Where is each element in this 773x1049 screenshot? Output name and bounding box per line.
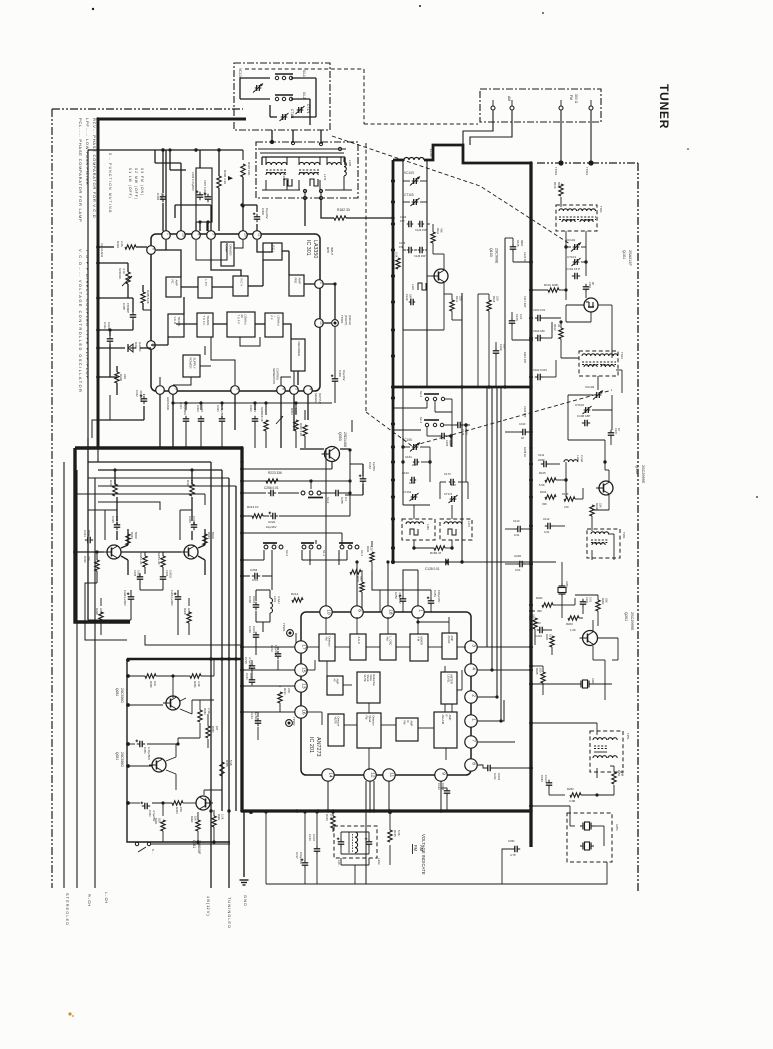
svg-text:C304: C304 xyxy=(165,570,169,577)
svg-text:470: 470 xyxy=(564,505,569,509)
svg-text:R113: R113 xyxy=(391,252,395,259)
transformer L172 coils xyxy=(444,522,462,524)
svg-text:0.47µ/50V: 0.47µ/50V xyxy=(147,747,151,760)
dashed line top vertical xyxy=(363,69,365,124)
svg-text:43K: 43K xyxy=(440,228,444,233)
svg-text:Q102: Q102 xyxy=(635,465,639,474)
svg-text:S2 MW (OFF): S2 MW (OFF) xyxy=(134,168,138,200)
resistor R181 xyxy=(360,582,364,592)
svg-text:C164: C164 xyxy=(405,455,412,459)
wire r185 xyxy=(542,666,544,672)
wire c311 xyxy=(109,330,111,336)
svg-text:33K: 33K xyxy=(605,598,609,603)
svg-text:4: 4 xyxy=(308,388,312,390)
coil loop b xyxy=(310,179,318,186)
svg-text:S2-4: S2-4 xyxy=(419,417,423,423)
transformer L181 primary xyxy=(327,163,341,165)
svg-text:5.6K: 5.6K xyxy=(229,760,233,766)
svg-text:C211: C211 xyxy=(493,773,497,780)
wire rbottom xyxy=(162,831,164,842)
svg-text:3.3K: 3.3K xyxy=(197,681,201,687)
resistor R309 xyxy=(115,372,119,383)
capacitor C302 xyxy=(252,418,259,420)
capacitor C334 xyxy=(87,537,89,544)
pin 13 IC201 left xyxy=(295,680,307,692)
svg-text:C311: C311 xyxy=(103,322,107,329)
transistor Q342 xyxy=(184,545,198,559)
svg-text:S2-2: S2-2 xyxy=(285,550,289,556)
IF band rails xyxy=(260,152,344,154)
dashed line top xyxy=(245,68,364,70)
wire r203 xyxy=(561,605,563,618)
svg-text:470µ/10V: 470µ/10V xyxy=(139,390,143,402)
capacitor C115 xyxy=(510,246,517,248)
wire t101 down xyxy=(565,231,567,242)
chain border right xyxy=(637,163,639,893)
wire thick mid-left vertical xyxy=(75,448,130,622)
svg-text:Q101: Q101 xyxy=(622,250,626,259)
svg-text:15P: 15P xyxy=(400,219,405,223)
transformer L161 primary xyxy=(266,162,287,165)
switch S2-3 xyxy=(425,397,428,400)
transistor Q353 xyxy=(325,447,340,462)
wire thick FM top entry xyxy=(393,159,404,162)
resistor R302 xyxy=(303,425,307,436)
svg-text:Q201: Q201 xyxy=(624,612,628,621)
TP201 test point xyxy=(287,630,294,637)
coil L103 xyxy=(418,283,426,290)
wire band inner xyxy=(261,157,263,165)
svg-text:1: 1 xyxy=(470,718,476,721)
svg-text:10µ/16V: 10µ/16V xyxy=(342,370,346,381)
svg-text:A.G.C: A.G.C xyxy=(357,637,361,645)
svg-text:C335: C335 xyxy=(111,516,115,523)
IF band second row xyxy=(266,173,285,175)
svg-text:C165: C165 xyxy=(445,440,449,447)
svg-text:0.022: 0.022 xyxy=(441,783,445,791)
svg-text:4.7µ/25V: 4.7µ/25V xyxy=(398,592,402,604)
capacitor C112 xyxy=(547,523,549,530)
block AM MIXER xyxy=(410,634,428,661)
capacitor C326 xyxy=(175,596,182,598)
wire nest h9 xyxy=(98,502,160,510)
IF band drops xyxy=(265,157,267,165)
svg-text:1µ/50V: 1µ/50V xyxy=(254,712,258,721)
switch row S2-2 xyxy=(264,545,268,549)
wire thick lower horizontal bus xyxy=(242,809,531,812)
svg-text:12: 12 xyxy=(369,772,375,778)
wire nest h8 xyxy=(75,493,205,495)
ic wire 4 xyxy=(234,240,243,266)
svg-text:6800: 6800 xyxy=(465,429,469,435)
svg-text:16: 16 xyxy=(300,709,306,715)
varicap VC101 xyxy=(574,244,576,250)
svg-text:C312: C312 xyxy=(135,390,139,397)
block AMFM IF xyxy=(434,712,457,748)
svg-text:AMP: AMP xyxy=(448,715,452,721)
pin 9 IC301 bottom xyxy=(231,386,240,395)
svg-text:T251: T251 xyxy=(626,733,630,740)
svg-text:8: 8 xyxy=(470,762,476,765)
trimmer CT172 xyxy=(451,496,453,502)
svg-text:MPB: MPB xyxy=(326,247,330,253)
block TUFF 19kHz xyxy=(227,312,255,337)
capacitor C163 xyxy=(411,477,413,484)
block TUFF TRANS xyxy=(197,313,213,337)
svg-text:4.7K: 4.7K xyxy=(122,268,126,274)
wire rail rch xyxy=(76,470,78,888)
pin 4 IC301 bottom xyxy=(304,386,313,395)
wire nest h3 xyxy=(92,395,110,438)
svg-text:RC: RC xyxy=(171,280,175,284)
svg-text:L20…: L20… xyxy=(337,860,341,867)
scan speck 3 xyxy=(756,496,758,498)
svg-text:AMP: AMP xyxy=(297,278,301,284)
svg-text:0.022: 0.022 xyxy=(252,626,256,634)
dashed vertical mid xyxy=(365,143,367,412)
svg-text:(19kHz): (19kHz) xyxy=(244,315,248,325)
wire r336 xyxy=(96,552,98,560)
svg-text:R109: R109 xyxy=(595,503,599,510)
wire r331 top xyxy=(114,470,116,484)
capacitor C308 xyxy=(254,216,261,218)
svg-text:R - CH: R - CH xyxy=(87,894,92,906)
svg-text:X201: X201 xyxy=(565,581,569,588)
svg-text:220P: 220P xyxy=(538,458,545,462)
svg-text:V.C.O ADJ: V.C.O ADJ xyxy=(100,243,104,258)
capacitor C214 xyxy=(255,720,262,722)
resistor R183 xyxy=(434,546,445,550)
resistor R216 xyxy=(331,816,335,828)
svg-text:4: 4 xyxy=(196,233,200,235)
wire fm feed b xyxy=(590,110,592,163)
resistor R213 xyxy=(252,514,263,518)
svg-text:R361: R361 xyxy=(217,814,221,821)
svg-text:FM: FM xyxy=(413,845,418,852)
wire vertical drop D xyxy=(235,486,237,811)
svg-text:R223 33K: R223 33K xyxy=(268,471,283,475)
ic201 wire 7 xyxy=(457,689,462,691)
capacitor C126 xyxy=(419,247,421,254)
svg-text:300 Ω: 300 Ω xyxy=(574,94,578,104)
ic wire 8 xyxy=(156,249,166,251)
trimmer CT171 xyxy=(298,107,300,113)
capacitor C221 xyxy=(249,679,256,681)
wire q103 xyxy=(427,275,431,277)
switch S3-2 xyxy=(301,491,305,495)
wire h560 xyxy=(242,559,264,561)
wire q341 xyxy=(113,528,115,545)
svg-text:C106 18P: C106 18P xyxy=(577,414,590,418)
svg-text:0.022: 0.022 xyxy=(544,775,548,782)
capacitor C218 xyxy=(253,604,260,606)
svg-text:G N D: G N D xyxy=(243,895,248,906)
capacitor C129 xyxy=(410,299,412,306)
pin 8 IC301 bottom xyxy=(277,386,286,395)
svg-text:C122: C122 xyxy=(400,215,407,219)
antenna box xyxy=(480,89,601,122)
svg-text:180: 180 xyxy=(503,344,507,349)
svg-text:0.022: 0.022 xyxy=(535,634,542,638)
svg-text:390: 390 xyxy=(537,609,542,613)
pin 1 IC201 top xyxy=(412,606,424,618)
ic201 wire 1 xyxy=(335,646,350,648)
wire sbottom xyxy=(151,843,230,845)
ic wire 12 xyxy=(297,371,299,385)
wire nest h4 xyxy=(160,448,222,456)
inductor L202 xyxy=(270,598,273,613)
wire vc104 b xyxy=(291,77,316,79)
svg-text:10: 10 xyxy=(243,233,247,237)
svg-text:15P: 15P xyxy=(399,245,404,249)
wire band top rail xyxy=(258,148,346,150)
svg-text:R251: R251 xyxy=(617,770,621,777)
ic wire 3 xyxy=(211,240,241,276)
wire r202 xyxy=(574,598,576,605)
transformer L162 box xyxy=(402,519,435,540)
svg-text:20P: 20P xyxy=(412,463,417,467)
wire c251 loop xyxy=(520,848,531,850)
resistor R304 xyxy=(125,245,136,249)
svg-text:TRANS: TRANS xyxy=(177,317,181,327)
svg-text:L171: L171 xyxy=(323,174,327,181)
wire nest long1 xyxy=(87,462,89,620)
pin 17 IC201 left xyxy=(295,641,307,653)
svg-text:C112: C112 xyxy=(543,517,550,521)
capacitor C105 xyxy=(509,320,516,322)
wire q353 xyxy=(300,448,324,450)
pin 1 IC301 xyxy=(162,231,171,240)
svg-text:S3-2: S3-2 xyxy=(326,497,330,504)
svg-text:R338: R338 xyxy=(95,608,99,615)
capacitor C255 xyxy=(335,490,337,497)
svg-text:R328: R328 xyxy=(183,608,187,615)
pin 11 IC201 bottom xyxy=(383,769,395,781)
pin 2 IC201 right xyxy=(465,691,477,703)
crystal X251a xyxy=(582,823,584,830)
wire q351 xyxy=(128,765,152,767)
ic wire 9 xyxy=(176,323,197,325)
svg-text:0.022: 0.022 xyxy=(160,193,164,201)
wire ct103 xyxy=(403,201,410,203)
capacitor C123 xyxy=(419,221,421,228)
wire c113 xyxy=(505,528,515,530)
wire thick FM left border xyxy=(392,160,395,562)
wire r215 xyxy=(389,812,391,830)
svg-text:R214: R214 xyxy=(291,592,299,596)
svg-text:R202: R202 xyxy=(601,598,605,605)
svg-text:PCL…… PHASE COMPARATOR FOR LAM: PCL…… PHASE COMPARATOR FOR LAMP xyxy=(78,118,83,222)
svg-text:100: 100 xyxy=(539,668,543,673)
ic wire 7 xyxy=(282,250,289,252)
wire c216 xyxy=(316,812,318,846)
svg-text:0.01: 0.01 xyxy=(589,597,593,603)
ic wire 10 xyxy=(283,324,291,339)
svg-text:TP201: TP201 xyxy=(282,623,286,632)
resistor R106 xyxy=(564,497,575,501)
svg-text:1.2K: 1.2K xyxy=(570,628,576,632)
svg-text:C334: C334 xyxy=(83,530,87,537)
svg-text:L172: L172 xyxy=(467,521,471,527)
svg-text:R185: R185 xyxy=(535,668,539,675)
wire vertical drop B xyxy=(221,470,223,811)
wire pin8 xyxy=(477,765,486,768)
trimmer arrow xyxy=(276,416,283,424)
svg-text:15K: 15K xyxy=(179,807,183,812)
svg-text:C361: C361 xyxy=(148,810,152,817)
svg-text:LPF…… LOW PASS FILTER: LPF…… LOW PASS FILTER xyxy=(85,118,90,185)
svg-text:22K: 22K xyxy=(287,688,291,693)
wire nest long2 xyxy=(211,461,242,463)
capacitor C311 xyxy=(107,338,114,340)
svg-text:T U F F DIRECT COUPLED TYPE: T U F F DIRECT COUPLED TYPE FLIP-FLOP xyxy=(85,249,90,380)
svg-text:C254: C254 xyxy=(250,568,258,572)
pin 4 IC301 xyxy=(192,231,201,240)
capacitor C184 xyxy=(360,478,367,480)
wire c203 xyxy=(505,563,517,565)
resistor R113 xyxy=(396,258,400,269)
svg-text:C216: C216 xyxy=(308,834,312,841)
wire q342 xyxy=(198,545,205,548)
capacitor C111 xyxy=(543,461,545,468)
svg-text:GROUND: GROUND xyxy=(166,397,170,410)
svg-text:SVR310: SVR310 xyxy=(118,268,122,279)
resistor R280 xyxy=(145,674,156,678)
svg-text:Noise: Noise xyxy=(369,675,372,682)
wire thick lower block top xyxy=(127,658,242,660)
capacitor C109 xyxy=(493,350,500,352)
resistor R182 xyxy=(334,216,346,220)
svg-text:R355: R355 xyxy=(225,760,229,767)
wire q341 base xyxy=(75,551,104,553)
svg-text:13: 13 xyxy=(181,233,185,237)
svg-text:R205: R205 xyxy=(528,614,532,621)
svg-text:S1-1: S1-1 xyxy=(302,70,306,77)
svg-text:4.7P: 4.7P xyxy=(510,853,516,857)
svg-text:22K: 22K xyxy=(123,374,127,379)
svg-text:L202: L202 xyxy=(273,596,277,603)
svg-text:R307 10K: R307 10K xyxy=(247,162,251,175)
wire r201 xyxy=(531,604,542,606)
capacitor C215 xyxy=(249,665,256,667)
wire r307 xyxy=(242,177,244,231)
transformer L162 coils xyxy=(406,522,424,524)
wire row403 xyxy=(173,402,332,404)
svg-text:C351: C351 xyxy=(143,747,147,754)
ic wire 6 xyxy=(181,286,198,288)
svg-text:IC 301: IC 301 xyxy=(305,240,311,256)
svg-text:8: 8 xyxy=(281,388,285,390)
svg-text:5: 5 xyxy=(294,388,298,390)
resistor R252 xyxy=(570,793,581,797)
capacitor C306 xyxy=(197,194,204,196)
wire r101 xyxy=(531,289,548,291)
svg-text:S1-2: S1-2 xyxy=(302,92,306,99)
wire r204 xyxy=(534,611,536,618)
capacitor C122 xyxy=(408,221,410,228)
svg-text:S1 LW (OFF): S1 LW (OFF) xyxy=(128,168,132,199)
svg-text:6800: 6800 xyxy=(520,240,524,247)
wire band out left xyxy=(304,198,306,226)
wire c184 xyxy=(362,464,364,476)
capacitor C101 xyxy=(574,273,576,280)
T201 coils xyxy=(591,532,609,534)
transformer L172 box xyxy=(440,519,472,540)
crystal X251b xyxy=(582,843,584,850)
svg-text:R333: R333 xyxy=(130,532,134,539)
wire q281 xyxy=(128,704,163,706)
wire c304 xyxy=(162,150,164,193)
chain border top-right segment xyxy=(537,162,638,164)
svg-text:C126 33P: C126 33P xyxy=(414,254,426,258)
wire r306 xyxy=(218,150,220,176)
svg-text:T101: T101 xyxy=(599,206,603,213)
svg-text:R336: R336 xyxy=(83,556,87,563)
varicap VC103 xyxy=(413,178,415,184)
wire c306 stub xyxy=(199,150,201,168)
transformer L171 primary xyxy=(299,162,320,165)
wire x251 xyxy=(575,825,580,827)
svg-text:R212: R212 xyxy=(283,688,287,695)
resistor R201 xyxy=(542,603,553,607)
svg-text:C120 470: C120 470 xyxy=(523,406,527,418)
wire bottom return xyxy=(266,883,502,885)
wire c255 xyxy=(321,492,333,494)
pin 18 IC201 top xyxy=(382,606,394,618)
wire pin4 bus xyxy=(477,669,531,671)
wire h494 xyxy=(242,492,266,494)
wire bottom nest xyxy=(88,619,131,621)
switch row S3-1 xyxy=(340,545,344,549)
svg-text:Q281: Q281 xyxy=(115,688,119,696)
resistor R254 xyxy=(350,570,361,574)
svg-text:R362: R362 xyxy=(190,816,194,823)
capacitor C104 xyxy=(537,335,539,342)
svg-text:R364: R364 xyxy=(154,818,158,825)
capacitor C219 xyxy=(253,634,260,636)
wire vc104 c xyxy=(270,116,277,118)
wire c109 xyxy=(495,342,497,348)
svg-text:R204: R204 xyxy=(545,634,549,641)
resistor R325 xyxy=(161,556,165,567)
pin x IC301 bottom xyxy=(156,386,165,395)
resistor R331 xyxy=(113,484,117,496)
svg-text:C202: C202 xyxy=(534,621,541,625)
resistor R328 xyxy=(187,612,191,623)
wire vc104 a xyxy=(240,77,270,79)
capacitor C103 xyxy=(537,315,539,322)
wire pin1 bus xyxy=(477,700,504,721)
svg-text:IC 201: IC 201 xyxy=(308,737,314,753)
wire s23 xyxy=(393,407,427,409)
transistor Q281 xyxy=(166,696,180,710)
capacitor C304 xyxy=(160,196,167,198)
svg-text:22K: 22K xyxy=(599,503,603,508)
svg-text:120: 120 xyxy=(370,546,374,551)
pin 6 IC201 top xyxy=(351,606,363,618)
svg-text:2.3K: 2.3K xyxy=(207,708,211,714)
capacitor C211 xyxy=(487,765,489,772)
pin 6 IC301 xyxy=(147,246,156,255)
svg-text:R115: R115 xyxy=(492,296,496,303)
svg-text:C222: C222 xyxy=(268,520,276,524)
wire am feed xyxy=(463,110,493,145)
transistor Q101 FET xyxy=(584,298,598,312)
svg-text:0.01: 0.01 xyxy=(252,578,258,582)
ic wire 5 xyxy=(257,240,272,252)
svg-text:0.022: 0.022 xyxy=(312,834,316,841)
svg-text:D301: D301 xyxy=(134,342,138,349)
